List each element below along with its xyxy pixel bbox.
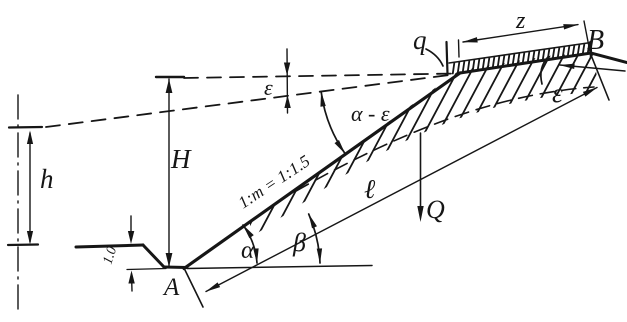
h dimension line	[29, 133, 31, 242]
svg-text:q: q	[413, 25, 427, 55]
q leader	[426, 49, 443, 66]
H dimension line	[168, 79, 170, 266]
svg-text:H: H	[170, 144, 192, 174]
z extension line left	[458, 40, 461, 57]
H bottom arrow	[166, 253, 173, 267]
load band top edge	[449, 43, 591, 64]
eps gap dimension vertical line	[286, 49, 289, 113]
extension line at B	[591, 55, 609, 100]
ditch dim down arrow	[128, 231, 134, 244]
svg-text:A: A	[162, 274, 180, 301]
left bottom tick	[8, 243, 38, 246]
H top bar	[156, 76, 184, 78]
ditch depth dim upper arrow line	[130, 216, 132, 240]
h top arrow	[27, 131, 33, 145]
beta arc	[309, 214, 320, 263]
svg-text:β: β	[292, 228, 306, 257]
centerline dash-dot	[17, 95, 19, 312]
ditch bottom extension line	[127, 269, 166, 270]
eps gap up arrow	[284, 95, 290, 108]
Q arrow head	[417, 206, 423, 222]
ditch depth dim lower arrow line	[131, 274, 134, 291]
eps gap down arrow	[284, 63, 290, 76]
svg-text:h: h	[40, 164, 54, 194]
alpha arc	[243, 225, 257, 263]
svg-text:ℓ: ℓ	[364, 174, 376, 204]
eps at B reference line	[560, 65, 625, 71]
svg-text:ε: ε	[264, 75, 273, 100]
ditch dim up arrow	[128, 271, 134, 284]
dashed horizontal line from H top	[184, 74, 457, 79]
ground line left	[76, 245, 143, 247]
eps at B arc	[541, 57, 548, 84]
load band left cap	[447, 42, 448, 74]
l dimension line A to B	[206, 88, 597, 292]
wedge lower boundary (dashed)	[296, 87, 594, 191]
H top arrow	[166, 79, 173, 93]
top surface under load	[460, 53, 627, 73]
left top tick	[9, 126, 42, 129]
svg-text:Q: Q	[426, 195, 445, 224]
h bottom arrow	[27, 231, 33, 245]
hatching of sliding wedge	[197, 55, 627, 245]
load band right cap	[589, 42, 592, 57]
z extension line right	[584, 21, 590, 52]
Q force arrow	[420, 133, 422, 207]
svg-text:z: z	[515, 8, 526, 34]
alpha-eps arc	[321, 92, 345, 154]
main slope 1:1.5	[184, 73, 460, 269]
ditch bottom	[164, 266, 187, 270]
svg-text:ε: ε	[552, 78, 563, 108]
z dimension line	[463, 25, 578, 42]
svg-text:B: B	[587, 25, 604, 56]
arrowheads drawn as polygons	[27, 63, 424, 284]
horizontal reference from A	[187, 266, 372, 269]
dashed natural-surface line at slope eps	[46, 74, 457, 127]
ditch slope	[143, 245, 164, 267]
load band ticks	[453, 44, 590, 74]
svg-text:α - ε: α - ε	[351, 101, 390, 126]
extension line at A	[184, 268, 203, 307]
svg-text:α: α	[241, 237, 255, 264]
